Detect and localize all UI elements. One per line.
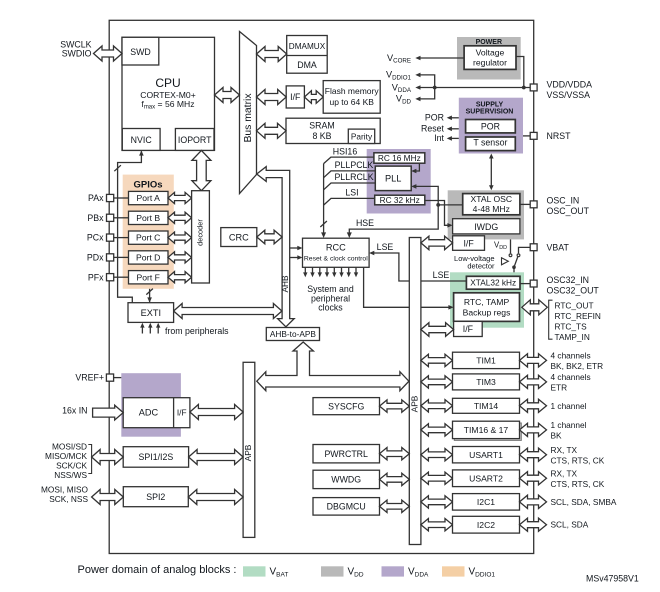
POR output arrow (451, 117, 459, 119)
svg-text:VDD: VDD (348, 567, 364, 579)
svg-text:Bus matrix: Bus matrix (243, 93, 254, 143)
svg-text:Port B: Port B (136, 213, 160, 223)
svg-text:NVIC: NVIC (131, 135, 153, 145)
svg-text:I2C1: I2C1 (477, 497, 495, 507)
arrow SWCLK/SWDIO to SWD (94, 46, 123, 61)
arrow APB to TIM3 (421, 376, 453, 388)
svg-text:TIM16 & 17: TIM16 & 17 (464, 425, 509, 435)
APB link arrow (257, 342, 409, 391)
svg-text:LSE: LSE (377, 242, 394, 252)
svg-text:VDD/VDDA: VDD/VDDA (547, 80, 593, 90)
svg-text:Power domain of analog blocks: Power domain of analog blocks : (78, 564, 237, 576)
arrow bus matrix to flash I/F (257, 90, 287, 105)
DMAMUX divider (287, 55, 328, 57)
svg-text:Voltage: Voltage (476, 47, 505, 57)
svg-text:4-48 MHz: 4-48 MHz (473, 204, 510, 214)
svg-text:VCORE: VCORE (387, 53, 411, 65)
svg-text:TIM3: TIM3 (476, 377, 496, 387)
svg-text:RC 16 MHz: RC 16 MHz (378, 153, 421, 163)
svg-text:RTC_REFIN: RTC_REFIN (555, 311, 601, 321)
RTC I/F block (454, 321, 483, 336)
arrow TIM14 pins (520, 399, 547, 412)
SYSCFG block (313, 398, 380, 415)
arrow APB to IWDG I/F (421, 236, 453, 250)
svg-text:from peripherals: from peripherals (165, 326, 229, 336)
svg-text:SWDIO: SWDIO (62, 48, 92, 58)
arrowhead LSE into RCC (369, 251, 374, 256)
Int output arrow (451, 137, 459, 139)
MCU boundary frame (109, 20, 534, 553)
svg-text:up to 64 KB: up to 64 KB (329, 97, 374, 107)
IWDG I/F block (453, 236, 485, 251)
svg-text:AHB-to-APB: AHB-to-APB (270, 329, 317, 339)
svg-text:SCL, SDA: SCL, SDA (551, 520, 589, 530)
wire VDD branch (420, 88, 435, 99)
svg-text:I/F: I/F (290, 92, 301, 102)
arrow Port F to decoder (168, 272, 192, 283)
arrow APB to USART1 (421, 449, 453, 461)
switch output node (512, 265, 516, 269)
XTAL OSC block (463, 194, 520, 215)
svg-text:Backup regs: Backup regs (463, 307, 511, 317)
arrow Port D to decoder (168, 252, 192, 263)
svg-text:RTC, TAMP: RTC, TAMP (464, 297, 510, 307)
wire GPIOs-EXTI arrowhead (147, 297, 152, 302)
arrow I2C2 pins (520, 518, 547, 531)
Port F block (129, 271, 169, 284)
arrow TIM1 pins (520, 354, 547, 367)
XTAL OSC / IWDG region (VDD gray) (448, 190, 524, 239)
USART1 block (453, 447, 520, 463)
svg-text:VDDA: VDDA (392, 82, 412, 94)
ADC power-domain region (VDDA purple) (121, 373, 181, 437)
svg-text:Port D: Port D (136, 253, 160, 263)
svg-text:SPI2: SPI2 (146, 492, 165, 502)
svg-text:TIM14: TIM14 (474, 401, 499, 411)
wire LSE (373, 253, 466, 281)
svg-text:VBAT: VBAT (270, 567, 289, 579)
arrow TIM16 and 17 pins (520, 423, 547, 436)
TIM3 block (453, 374, 520, 390)
svg-text:POR: POR (481, 121, 500, 131)
svg-text:OSC_IN: OSC_IN (547, 195, 580, 205)
ADC I/F divider (173, 398, 175, 428)
svg-text:TAMP_IN: TAMP_IN (555, 332, 590, 342)
IOPORT block (175, 129, 214, 151)
arrow CPU to bus matrix (215, 88, 240, 103)
svg-text:RCC: RCC (326, 242, 346, 252)
svg-text:CPU: CPU (155, 76, 180, 90)
arrow USART2 pins (520, 472, 547, 485)
svg-text:I/F: I/F (177, 408, 187, 418)
RC 16 MHz block (374, 153, 425, 163)
svg-text:VDD: VDD (494, 240, 507, 251)
arrow APB to RTC I/F (421, 323, 454, 337)
svg-text:MOSI, MISO: MOSI, MISO (41, 484, 89, 494)
arrow Port A to decoder (168, 192, 192, 203)
wire GPIOs to EXTI (149, 289, 151, 302)
pin PBx (107, 214, 114, 221)
svg-text:PLLPCLK: PLLPCLK (335, 160, 374, 170)
wire NVIC arrowhead (139, 150, 144, 155)
svg-text:I/F: I/F (463, 238, 474, 248)
EXTI peripheral input arrow 3 (157, 327, 159, 334)
arrowhead RC32 into IWDG (447, 223, 452, 228)
pin PCx (107, 234, 114, 241)
RC oscillators power-domain region (VDDA purple) (367, 149, 431, 214)
arrow WWDG to APB (380, 473, 410, 485)
flash memory block (323, 81, 380, 114)
DMAMUX/DMA block (287, 36, 328, 74)
wire NRST (523, 135, 530, 137)
svg-text:T sensor: T sensor (473, 138, 507, 148)
Reset output arrow (451, 128, 459, 130)
svg-text:IOPORT: IOPORT (178, 135, 212, 145)
Port B block (129, 211, 169, 224)
wire RC16 to PLL (416, 163, 420, 171)
svg-text:NRST: NRST (547, 131, 572, 141)
SWD block (122, 37, 159, 65)
wire HSI16 (324, 157, 374, 164)
svg-text:ETR: ETR (551, 383, 568, 393)
svg-text:XTAL32 kHz: XTAL32 kHz (470, 278, 516, 288)
EXTI block (128, 303, 174, 323)
svg-text:I/F: I/F (463, 324, 474, 334)
RC 32 kHz block (375, 195, 425, 205)
svg-text:APB: APB (243, 444, 253, 461)
switch contact VBAT (517, 254, 520, 257)
svg-text:SCL, SDA, SMBA: SCL, SDA, SMBA (551, 497, 617, 507)
APB bus (right) (409, 238, 421, 545)
pin OSC_IN/OSC_OUT (530, 201, 537, 208)
svg-text:SPI1/I2S: SPI1/I2S (139, 452, 174, 462)
svg-text:LSI: LSI (345, 188, 358, 198)
RTC backup power-domain region (VBAT green) (450, 272, 524, 327)
svg-text:BK: BK (551, 431, 563, 441)
svg-text:SCK/CK: SCK/CK (56, 461, 87, 471)
EXTI peripheral input arrow 2 (149, 327, 151, 334)
svg-text:POR: POR (425, 113, 444, 123)
supply rail wire VDD/VDDA pin (420, 87, 531, 89)
svg-text:Port C: Port C (136, 233, 160, 243)
svg-text:SUPPLY: SUPPLY (476, 101, 504, 108)
XTAL32 kHz block (466, 276, 520, 289)
RCC clock output arrow 4 (326, 267, 328, 273)
svg-text:1 channel: 1 channel (551, 401, 587, 411)
TIM14 block (453, 398, 520, 413)
svg-text:PFx: PFx (88, 272, 104, 282)
arrow APB to TIM14 (421, 400, 453, 412)
svg-text:4 channels: 4 channels (551, 372, 591, 382)
SPI2 block (123, 487, 188, 507)
arrowhead VCORE (415, 56, 420, 61)
wire PAx pin to Port A (114, 197, 129, 199)
bus-width slash on NVIC-EXTI wire (114, 165, 121, 171)
wire OSC pins (520, 203, 530, 205)
svg-text:PLL: PLL (385, 174, 401, 184)
arrow ADC to APB (190, 405, 243, 420)
arrow SPI1 to APB (189, 450, 244, 465)
svg-text:I2C2: I2C2 (477, 520, 495, 530)
RCC clock output arrow 2 (312, 267, 314, 273)
SRAM block (286, 118, 380, 143)
svg-text:OSC32_IN: OSC32_IN (547, 275, 590, 285)
Port A block (129, 191, 169, 204)
svg-text:VDDIO1: VDDIO1 (386, 70, 412, 82)
svg-text:Port F: Port F (136, 272, 159, 282)
svg-text:Int: Int (434, 133, 444, 143)
wire PFx pin to Port F (114, 276, 129, 278)
svg-text:CTS, RTS, CK: CTS, RTS, CK (551, 455, 605, 465)
arrow PWRCTRL to APB (380, 448, 410, 460)
RCC clock output arrow 3 (319, 267, 321, 273)
TIM1 block (453, 352, 520, 368)
svg-text:DMA: DMA (297, 60, 317, 70)
svg-text:16x IN: 16x IN (62, 406, 87, 416)
IWDG block (453, 219, 520, 234)
parity block (348, 129, 374, 143)
svg-text:DMAMUX: DMAMUX (289, 42, 326, 51)
svg-text:SRAM: SRAM (309, 121, 334, 131)
svg-text:ADC: ADC (139, 408, 159, 418)
pin VREF+ (106, 374, 113, 381)
arrow APB to I2C1 (421, 496, 453, 508)
svg-text:OSC32_OUT: OSC32_OUT (547, 286, 600, 296)
arrow I2C1 pins (520, 495, 547, 508)
wire XTAL OSC to HSE node (438, 204, 463, 206)
wire LSI (324, 198, 375, 205)
arrow APB to USART2 (421, 472, 453, 484)
pin OSC32_IN/OSC32_OUT (530, 280, 537, 287)
svg-text:VREF+: VREF+ (75, 373, 104, 383)
arrowhead HSE into PLL (411, 184, 416, 189)
svg-text:Port A: Port A (136, 193, 160, 203)
legend VDDIO1 swatch (442, 566, 465, 576)
svg-text:VDDIO1: VDDIO1 (469, 567, 496, 579)
arrow RTC to tamper pins (522, 300, 548, 315)
arrow SPI2 to APB (188, 490, 243, 505)
wire PLLRCLK (324, 183, 376, 190)
GPIOs power-domain region (VDDIO1 peach) (123, 175, 174, 289)
switch contact VDD (509, 254, 512, 257)
legend VDD swatch (321, 566, 344, 576)
svg-text:LSE: LSE (433, 270, 450, 280)
svg-text:NSS/WS: NSS/WS (54, 470, 87, 480)
POR block (466, 120, 516, 133)
svg-text:VDD: VDD (396, 94, 412, 106)
pin PAx (107, 194, 114, 201)
arrowhead clocks into RTC (448, 305, 453, 310)
svg-text:CTS, RTS, CK: CTS, RTS, CK (551, 479, 605, 489)
SPI1 block (123, 447, 188, 468)
junction supply rail branch (433, 86, 437, 90)
CPU block (122, 37, 215, 150)
wire VDDIO1 branch (420, 75, 435, 88)
wire VREF+ to ADC region (114, 377, 122, 379)
svg-text:PAx: PAx (88, 193, 104, 203)
arrow APB to I2C2 (421, 519, 453, 531)
svg-text:MOSI/SD: MOSI/SD (52, 442, 87, 452)
RTC TAMP block (454, 293, 520, 322)
Port C block (129, 231, 169, 244)
svg-text:Reset & clock control: Reset & clock control (304, 256, 368, 263)
wire VDD to switch (510, 239, 512, 253)
arrow T sensor to XTAL region (490, 157, 492, 186)
arrowhead VDD (415, 97, 420, 102)
svg-text:DBGMCU: DBGMCU (327, 502, 366, 512)
svg-text:HSE: HSE (356, 218, 374, 228)
svg-text:IWDG: IWDG (474, 222, 498, 232)
DBGMCU block (313, 498, 380, 515)
pin PFx (107, 274, 114, 281)
voltage regulator block (464, 46, 516, 70)
svg-text:MSv47958V1: MSv47958V1 (586, 573, 639, 583)
svg-text:SCK, NSS: SCK, NSS (49, 494, 88, 504)
svg-text:8 KB: 8 KB (312, 131, 331, 141)
svg-text:RTC_TS: RTC_TS (555, 321, 588, 331)
svg-text:GPIOs: GPIOs (133, 179, 162, 190)
GPIO decoder block (192, 191, 210, 283)
svg-text:RTC_OUT: RTC_OUT (555, 301, 594, 311)
T sensor block (466, 137, 516, 151)
arrow APB to TIM16 and 17 (421, 424, 453, 436)
PWRCTRL block (313, 445, 380, 463)
switch blade (514, 257, 518, 267)
arrow flash I/F to flash (304, 91, 323, 104)
bracket RTC pins (549, 300, 553, 339)
ADC block (123, 398, 190, 428)
USART2 block (453, 470, 520, 487)
APB bus (left) (243, 362, 255, 537)
svg-text:BK, BK2, ETR: BK, BK2, ETR (551, 361, 604, 371)
AHB bus (257, 167, 295, 327)
arrow SPI2 pins (92, 490, 124, 505)
svg-text:RX, TX: RX, TX (551, 468, 578, 478)
svg-text:SYSCFG: SYSCFG (328, 401, 364, 411)
RCC block (303, 238, 370, 267)
WWDG block (313, 470, 380, 488)
EXTI peripheral input arrow 1 (141, 327, 143, 334)
arrow bus matrix to SRAM (257, 123, 287, 138)
RCC clock output arrow 1 (304, 267, 306, 273)
wire PCx pin to Port C (114, 237, 129, 239)
svg-text:VDDA: VDDA (408, 567, 429, 579)
svg-text:clocks: clocks (318, 303, 343, 313)
arrow DBGMCU to APB (380, 500, 410, 512)
svg-text:Reset: Reset (421, 124, 445, 134)
wire OSC32 pins (520, 283, 530, 285)
arrow AHB to RCC lower (290, 257, 299, 259)
arrowhead VDDIO1 (415, 73, 420, 78)
legend VBAT swatch (243, 566, 266, 576)
svg-text:PDx: PDx (87, 253, 104, 263)
wire voltage regulator to supply rail (516, 57, 524, 88)
RCC clock output arrow 5 (333, 267, 335, 273)
wire RC32 to IWDG (425, 201, 449, 226)
svg-text:PBx: PBx (87, 213, 104, 223)
wire HSE from XTAL OSC to RCC and PLL (349, 186, 438, 233)
wire VCORE from voltage regulator (420, 57, 465, 59)
arrow APB to TIM1 (421, 354, 453, 366)
arrow EXTI-AHB (174, 304, 282, 319)
arrow bus matrix to DMA (257, 47, 287, 62)
wire PBx pin to Port B (114, 217, 129, 219)
svg-text:decoder: decoder (196, 219, 205, 246)
pin VDD/VDDA (530, 84, 537, 91)
I2C2 block (453, 516, 520, 533)
arrowhead clocks into RCC (321, 232, 326, 238)
svg-text:AHB: AHB (280, 275, 290, 293)
wire PLLPCLK (324, 171, 376, 178)
flash I/F block (286, 86, 304, 108)
SUPPLY SUPERVISION region (VDDA purple) (459, 98, 523, 154)
svg-text:XTAL OSC: XTAL OSC (471, 194, 513, 204)
svg-text:MISO/MCK: MISO/MCK (45, 451, 87, 461)
svg-text:APB: APB (409, 395, 419, 412)
POWER region (VDD gray) (457, 37, 521, 80)
TIM16 and 17 shadow (454, 423, 521, 440)
arrow Port C to decoder (168, 232, 192, 243)
svg-text:PWRCTRL: PWRCTRL (324, 449, 368, 459)
svg-text:regulator: regulator (473, 57, 507, 67)
svg-text:CRC: CRC (229, 232, 249, 242)
svg-text:TIM1: TIM1 (476, 356, 496, 366)
TIM16 and 17 block (453, 421, 520, 438)
bus matrix (240, 32, 257, 194)
wire VBAT pin to switch (519, 247, 531, 253)
AHB-to-APB bridge block (266, 328, 319, 341)
svg-text:4 channels: 4 channels (551, 351, 591, 361)
CRC block (221, 228, 257, 247)
wire PDx pin to Port D (114, 256, 129, 258)
arrowhead HSE into RCC (347, 232, 352, 238)
RCC clock output arrow 6 (341, 267, 343, 273)
pin PDx (107, 254, 114, 261)
svg-text:WWDG: WWDG (331, 475, 361, 485)
wire clock mux vertical into RCC (323, 164, 325, 233)
arrow CRC to AHB (257, 230, 282, 244)
svg-text:PLLRCLK: PLLRCLK (334, 172, 373, 182)
svg-text:Flash memory: Flash memory (325, 86, 380, 96)
pin NRST (530, 132, 537, 139)
wire NVIC-EXTI interrupt line (118, 151, 142, 302)
junction supply rail at regulator (522, 86, 526, 90)
RCC clock output arrow 7 (348, 267, 350, 273)
svg-text:USART1: USART1 (469, 450, 503, 460)
svg-text:VSS/VSSA: VSS/VSSA (547, 90, 591, 100)
svg-text:RC 32 kHz: RC 32 kHz (380, 195, 420, 205)
Port D block (129, 251, 169, 264)
arrow 16x IN to ADC (93, 405, 124, 420)
arrowhead VDDA (415, 85, 420, 90)
svg-text:1 channel: 1 channel (551, 420, 587, 430)
svg-text:HSI16: HSI16 (333, 146, 358, 156)
arrow SPI1 pins (92, 450, 124, 465)
arrow SYSCFG to APB (380, 400, 410, 412)
svg-text:PCx: PCx (87, 233, 104, 243)
arrow TIM3 pins (520, 375, 547, 388)
arrowhead RC16 into PLL (411, 169, 416, 174)
bracket SPI1 pins (88, 445, 91, 474)
PLL block (375, 166, 411, 191)
svg-text:SUPERVISION: SUPERVISION (466, 109, 514, 116)
RCC clock output arrow 8 (355, 267, 357, 273)
wire switch to RTC domain (513, 267, 515, 272)
svg-text:OSC_OUT: OSC_OUT (547, 206, 590, 216)
svg-text:Parity: Parity (351, 131, 373, 141)
svg-text:USART2: USART2 (469, 473, 503, 483)
svg-text:detector: detector (467, 262, 495, 271)
